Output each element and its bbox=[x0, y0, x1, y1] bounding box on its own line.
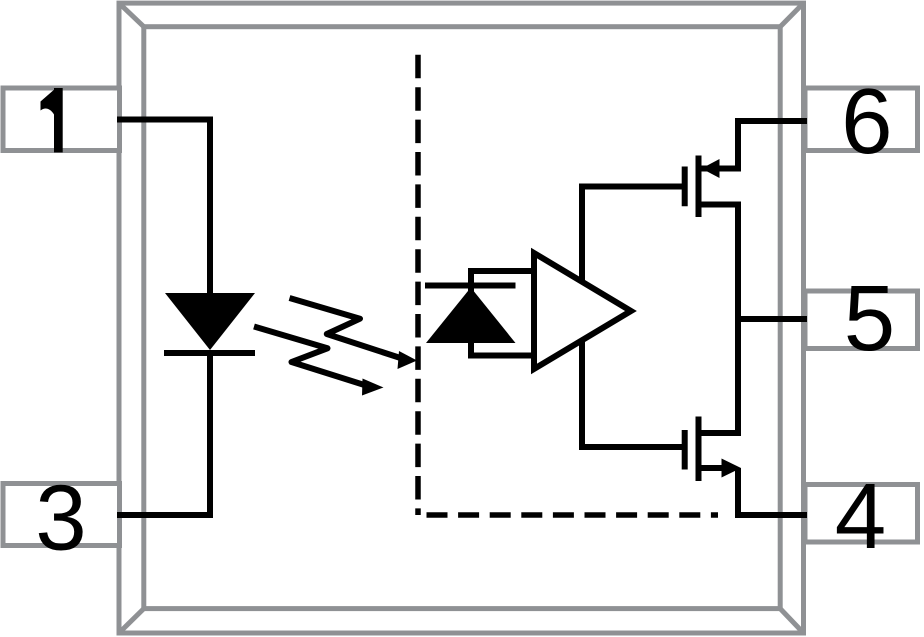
pin 1 label bbox=[41, 88, 63, 152]
package outer body bbox=[119, 3, 804, 633]
photodiode box wires bbox=[471, 271, 534, 356]
svg-text:3: 3 bbox=[35, 465, 86, 569]
isolation boundary dashed line vertical bbox=[415, 55, 421, 515]
photodiode PD1 triangle bbox=[426, 288, 516, 344]
MOSFET Q2 body arrow bbox=[722, 459, 742, 478]
svg-text:6: 6 bbox=[841, 69, 892, 173]
wire LED cathode to pin3 bbox=[117, 350, 210, 515]
pin 6 pad bbox=[805, 88, 918, 151]
MOSFET Q1 drain wire to pin6 bbox=[701, 121, 807, 169]
LED D1 triangle bbox=[165, 293, 255, 350]
amplifier U1 bbox=[534, 253, 631, 369]
package inner body bbox=[144, 27, 780, 609]
MOSFET Q2 channel bar bbox=[696, 417, 702, 482]
light emission arrow 1 bbox=[290, 298, 418, 369]
photodiode PD1 cathode bar bbox=[425, 283, 516, 289]
svg-text:4: 4 bbox=[835, 464, 886, 568]
package bevel top-right bbox=[780, 3, 803, 27]
MOSFET Q1 channel bar bbox=[696, 156, 702, 218]
gate bus wire bbox=[582, 187, 684, 448]
wire tap to pin 5 bbox=[738, 316, 807, 322]
light emission arrow 2 bbox=[254, 327, 384, 396]
package bevel top-left bbox=[119, 3, 144, 27]
isolation boundary dashed line horizontal bbox=[427, 512, 719, 518]
MOSFET Q2 source wire to pin4 bbox=[738, 468, 807, 515]
package bevel bottom-left bbox=[119, 609, 144, 633]
MOSFET Q1 gate bar bbox=[682, 167, 688, 207]
package bevel bottom-right bbox=[780, 609, 803, 633]
pin 4 pad bbox=[805, 485, 918, 543]
svg-text:5: 5 bbox=[844, 266, 895, 370]
pin 3 pad bbox=[3, 484, 120, 546]
pin 1 pad bbox=[3, 88, 120, 151]
wire pin1 to LED anode bbox=[117, 120, 210, 294]
MOSFET Q2 gate bar bbox=[682, 430, 688, 470]
MOSFET Q2 source lead bbox=[702, 465, 723, 471]
MOSFET Q1 source wire down to Q2 drain bbox=[699, 205, 739, 434]
pin 5 pad bbox=[805, 291, 918, 349]
MOSFET Q1 body arrow bbox=[702, 159, 720, 178]
LED D1 cathode bar bbox=[164, 350, 255, 356]
